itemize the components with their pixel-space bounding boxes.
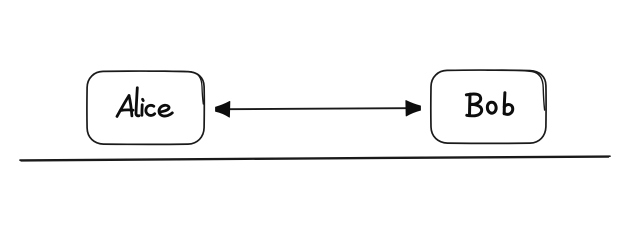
arrowhead left (points at Alice) <box>216 102 230 118</box>
wire Alice-Bob (double-headed arrow shaft) <box>229 108 406 109</box>
baseline (long horizontal ground line, two sketch passes) <box>20 156 610 161</box>
label "Alice" (handwritten strokes) <box>117 88 172 117</box>
node Alice (rounded box, hand-drawn double pass) <box>87 71 204 144</box>
label "Bob" (handwritten strokes) <box>466 93 512 116</box>
arrowhead right (points at Bob) <box>406 101 421 116</box>
node Bob (rounded box, hand-drawn double pass) <box>431 70 546 143</box>
